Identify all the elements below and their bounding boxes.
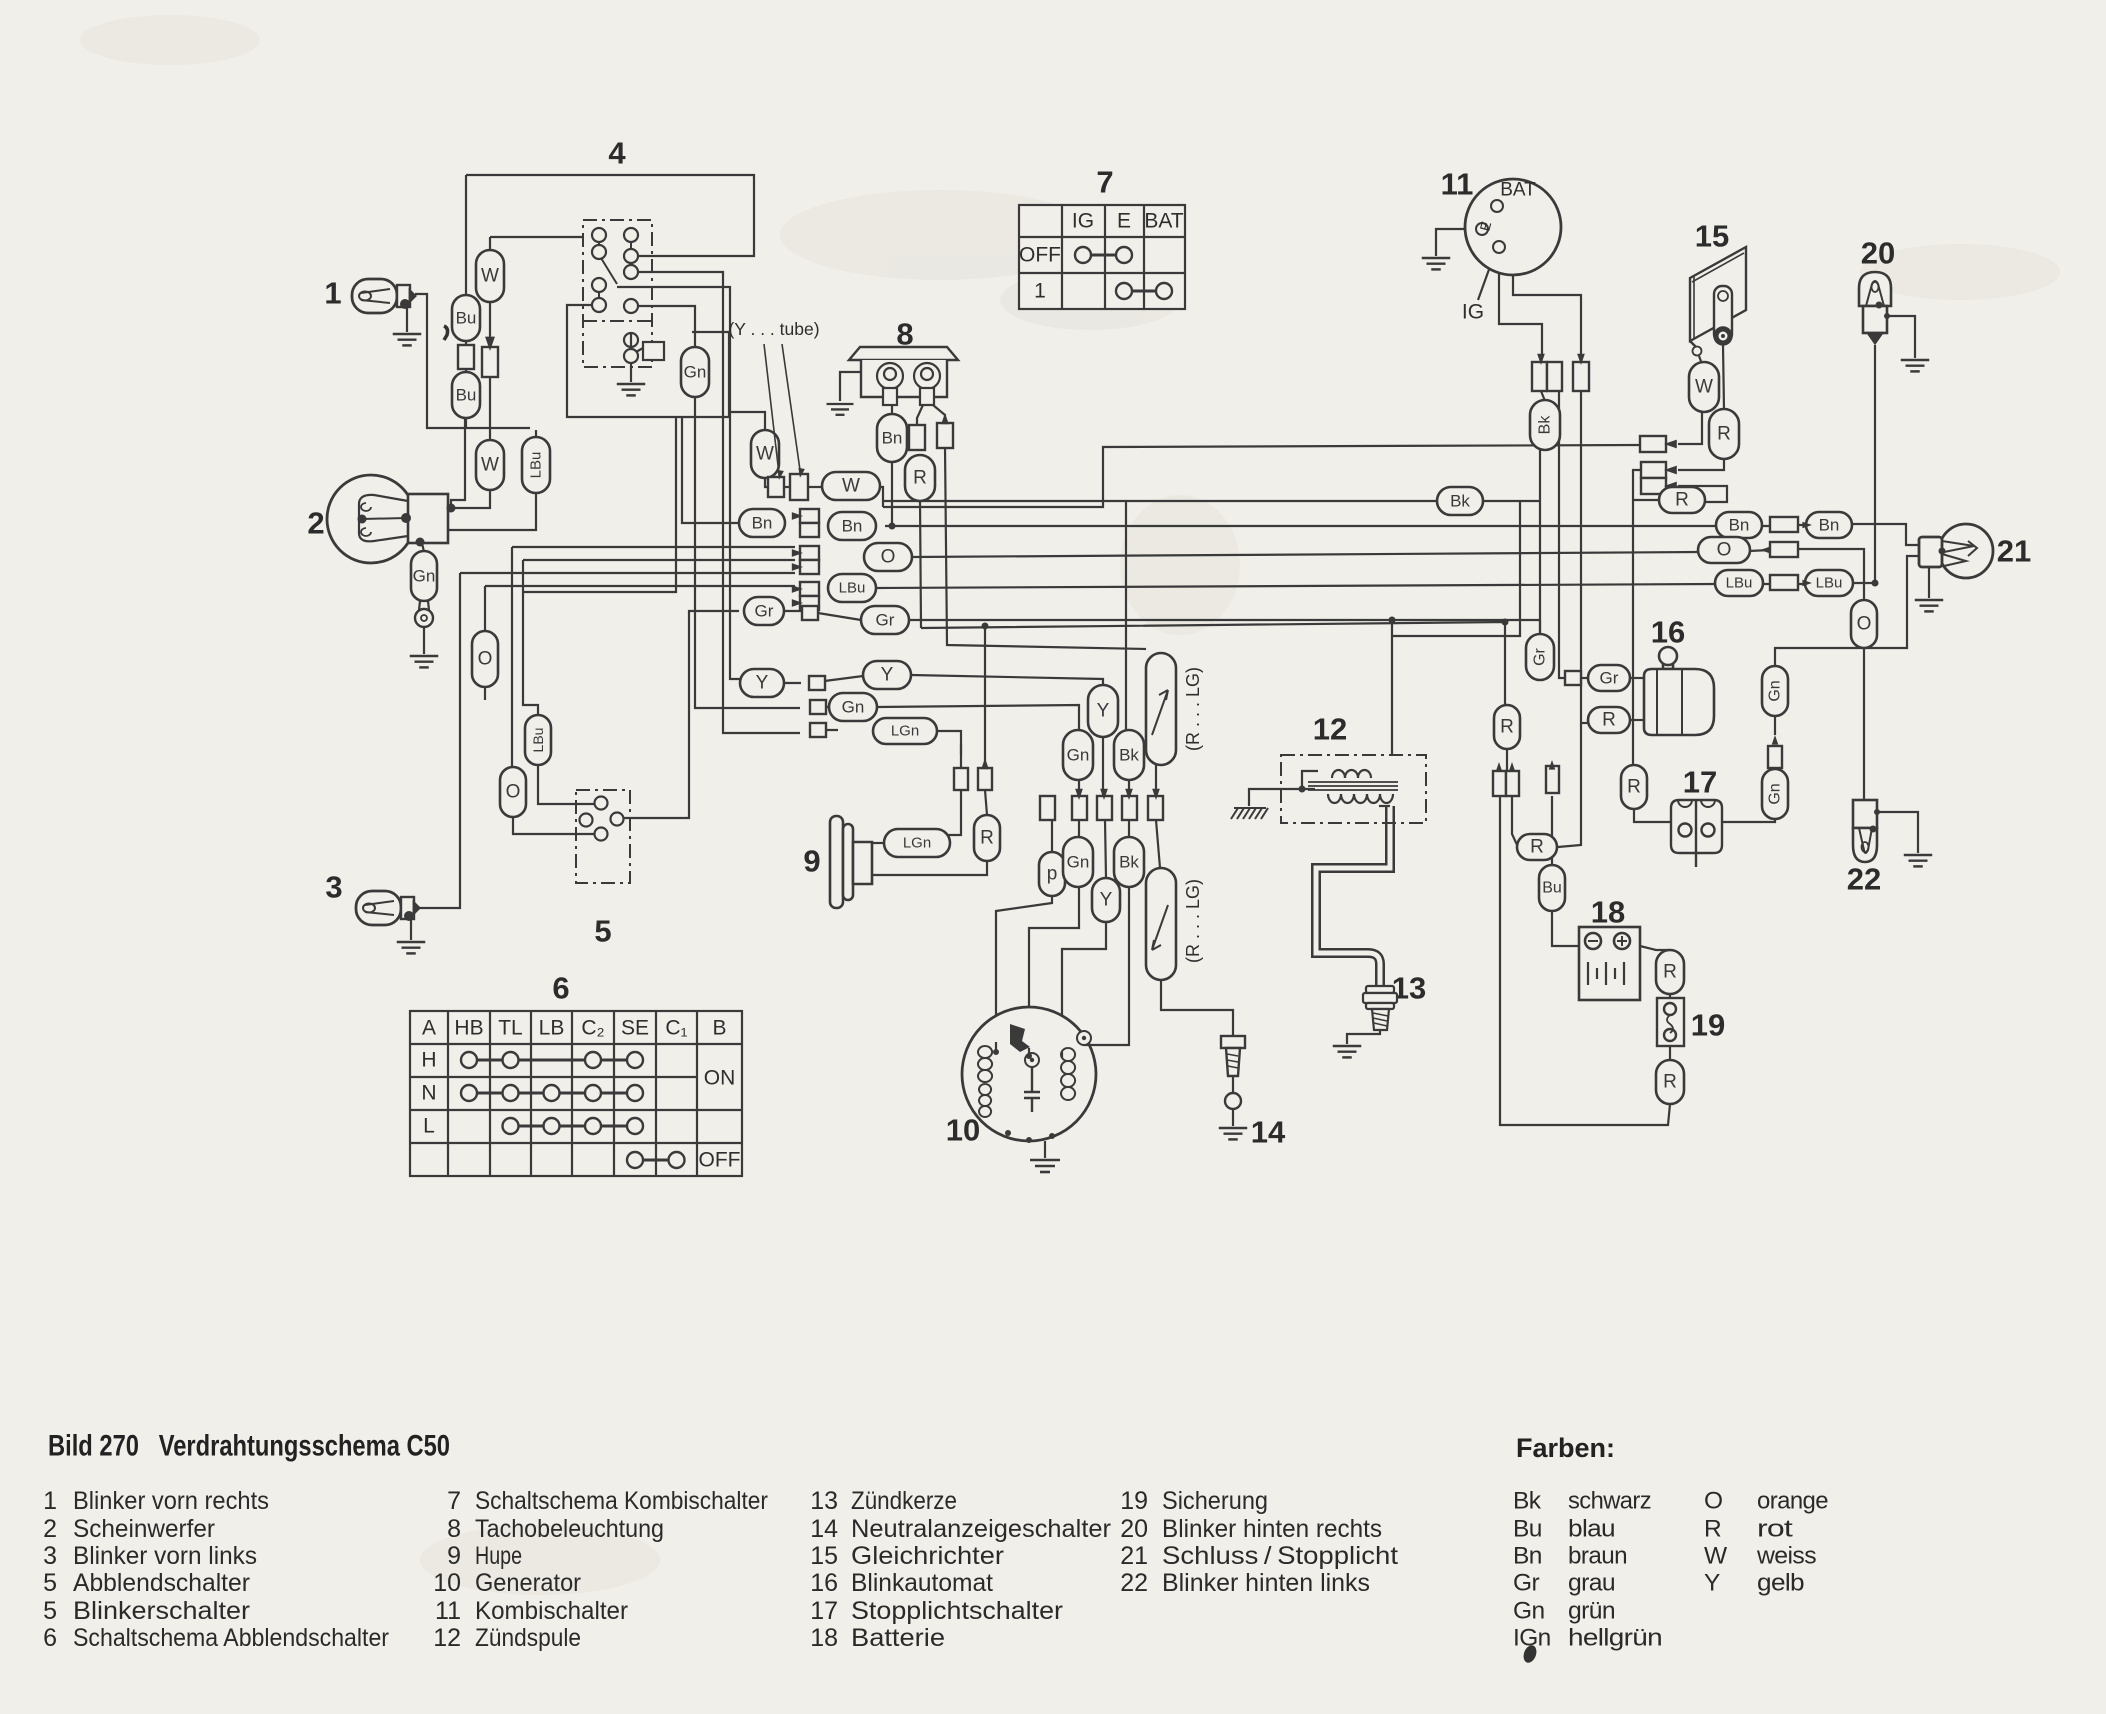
label W headlight lo [476,440,504,490]
wire bulb20 to ground [1887,316,1915,358]
svg-text:Kombischalter: Kombischalter [475,1597,628,1625]
svg-text:Gn: Gn [1067,746,1090,765]
wire LBu conn to LBu2 [1762,583,1806,585]
arrow into horn connector [981,758,989,769]
wire LBu2 drop [523,560,538,716]
wire bulb8a to Bn [891,405,893,415]
svg-text:R: R [1627,777,1641,798]
junction gen [1049,1133,1055,1139]
generator condenser [1024,1067,1040,1112]
svg-text:Blinker hinten links: Blinker hinten links [1162,1569,1370,1597]
svg-text:Blinker vorn links: Blinker vorn links [73,1542,257,1570]
connector tacho b [937,423,953,448]
svg-text:Bu: Bu [1513,1516,1542,1543]
wire R15 to connector [1678,459,1724,470]
svg-text:H: H [421,1049,436,1072]
arrow into column [792,549,803,557]
arrow into column [792,585,803,593]
arrow O conn [1760,547,1770,554]
wire IG drop [1499,254,1542,358]
svg-text:W: W [481,455,499,476]
arrow Y-tube [776,470,784,481]
svg-text:Schaltschema Kombischalter: Schaltschema Kombischalter [475,1487,768,1515]
wire bus W (headlight feed) [883,445,1640,507]
ground spark plug [1333,1046,1362,1057]
wire LBu1 top stub [535,430,537,445]
wire headlight to Gn [422,543,424,552]
wire neutral switch stem [1232,1076,1234,1093]
label Gn gen upper [1063,730,1093,780]
wire net bulb3 [460,572,795,574]
connector combi a1 [1532,362,1547,391]
svg-text:grau: grau [1568,1570,1615,1597]
wire bulb1 ground lead [406,304,408,332]
junction gen coil [993,1049,999,1055]
wire R cap to flasher relay [1630,719,1644,721]
tacho lamp housing 8 [849,347,958,397]
svg-text:12: 12 [1313,712,1347,747]
svg-text:15: 15 [1695,219,1729,254]
wire flasher cap to conn [1155,765,1157,797]
connector rectifier b2 [1641,478,1666,494]
wire blinker switch to Gr net [622,611,739,818]
label Gn stop 1 [1762,666,1788,716]
label R tacho [905,455,935,501]
label R fuse out [1656,1060,1684,1104]
svg-text:19: 19 [1120,1487,1148,1515]
wire LBu2 to junction [1852,582,1875,584]
label Bu battery [1539,865,1565,911]
svg-text:Gn: Gn [1767,680,1784,701]
svg-text:OFF: OFF [1019,244,1061,267]
junction gen [1026,1137,1032,1143]
flasher indicator capsule lower (R...LG) [1146,868,1176,980]
connector Y-tube b [790,474,808,500]
legend column 2 [433,1487,768,1652]
junction R bus / feed [1502,619,1509,626]
label R horn [974,815,1000,861]
wire p to generator [996,896,1052,1042]
junction coil primary [1299,786,1306,793]
svg-text:p: p [1047,864,1058,885]
svg-text:W: W [756,444,774,465]
svg-text:11: 11 [1441,167,1474,202]
svg-text:Generator: Generator [475,1569,581,1597]
svg-text:Blinker hinten rechts: Blinker hinten rechts [1162,1515,1382,1543]
label LBu rear 1 [1715,570,1763,596]
wire bulb8b to conn [917,405,923,425]
wire conn to Gn2 [1078,820,1080,838]
arrow combi a [1537,354,1545,365]
svg-text:LBu: LBu [528,452,545,479]
svg-text:1: 1 [324,276,341,311]
wire LGn stub [960,744,962,755]
label Bn right [828,512,876,540]
svg-text:gelb: gelb [1757,1570,1804,1597]
connector col cell [800,582,819,596]
label Gn headlight ground [411,551,437,601]
wire Gr bus to Gr capsule [1539,620,1541,634]
wire conn to lower indicator capsule [1156,820,1160,868]
svg-text:Bk: Bk [1513,1488,1542,1515]
wire IG run to stop lamp switch [1558,391,1581,847]
junction gen [1005,1130,1011,1136]
ground lamp 21 [1915,600,1944,611]
svg-text:L: L [423,1115,435,1138]
connector rectifier a [1640,436,1666,452]
svg-text:22: 22 [1120,1569,1148,1597]
label R charge [1659,487,1705,513]
svg-text:20: 20 [1120,1515,1148,1543]
svg-text:C₁: C₁ [665,1017,687,1040]
label R flasher [1588,707,1630,733]
label Bn tail 1 [1716,512,1762,538]
wire gen entry Bk [1083,1030,1129,1045]
svg-text:16: 16 [1651,615,1685,650]
wire R16 to connector [1506,749,1508,771]
arrow into gen connector [1152,789,1160,800]
wire LGn elbow down [938,731,961,768]
ground bulb 20 [1901,360,1930,371]
wire Bn to conn [1729,525,1770,527]
wire fuse to R19 [1669,1045,1671,1060]
svg-text:Neutralanzeigeschalter: Neutralanzeigeschalter [851,1515,1111,1543]
fuse 19 Sicherung [1657,998,1684,1046]
wire bulb1 branch down [415,294,530,428]
svg-text:schwarz: schwarz [1568,1488,1651,1515]
svg-text:Sicherung: Sicherung [1162,1487,1268,1515]
label R stop feed [1621,765,1647,809]
svg-text:Gn: Gn [1513,1598,1544,1625]
svg-text:7: 7 [447,1487,461,1515]
wire c to Bu [1551,796,1553,866]
svg-text:11: 11 [435,1597,461,1625]
svg-text:Gr: Gr [876,611,895,630]
label Gr flasher 2 [1588,665,1630,691]
tacho bulb [877,363,903,405]
wire tube conns [784,486,790,488]
arrow into gen connector [1125,789,1133,800]
bulb 1 Blinker vorn rechts [352,279,415,313]
svg-text:Blinkerschalter: Blinkerschalter [73,1597,250,1625]
svg-text:Abblendschalter: Abblendschalter [73,1569,250,1597]
svg-text:LGn: LGn [891,723,919,740]
label LGn horn [884,829,950,857]
tail lamp 21 Schluss/Stopplicht [1919,524,1993,578]
svg-text:BAT: BAT [1144,210,1183,233]
wire conn to Y2 [1105,820,1106,878]
label R feed [1494,705,1520,749]
arrow into column [792,563,803,571]
wire bus O [912,552,1700,557]
arrow W chain [485,337,495,351]
ground bulb 1 [393,334,422,345]
ground switch 4 [617,384,646,395]
junction Bn bus [889,523,896,530]
svg-text:B: B [712,1017,726,1040]
label Gr right [861,606,909,634]
svg-text:IG: IG [1462,301,1484,324]
svg-text:LBu: LBu [530,728,546,753]
wire battery plus to R18 [1640,946,1670,950]
svg-text:1: 1 [1034,280,1046,303]
svg-text:Bn: Bn [1729,516,1750,535]
svg-text:Gn: Gn [842,698,865,717]
connector combi a2 [1547,362,1562,391]
label O rear [1698,537,1750,563]
table 7 Schaltschema Kombischalter [1019,205,1185,309]
wire Gn chain 1 [1774,757,1776,769]
stoplight switch 17 [1671,800,1722,867]
arrow into column [792,599,803,607]
wire Gr connector to Gr cap [818,613,861,620]
wire Bn8 down [891,462,893,526]
connector rear O [1770,542,1798,557]
wire Y to connector [784,682,801,684]
svg-text:ON: ON [704,1067,736,1090]
wire Gn chain 2 [1774,716,1776,735]
svg-text:R: R [1663,962,1677,983]
arrow LBu conn [1802,580,1812,587]
bulb 22 Blinker hinten links [1852,800,1877,862]
wire W15 to connector [1678,412,1702,444]
svg-text:R: R [1530,837,1544,858]
svg-text:5: 5 [43,1597,57,1625]
svg-text:Scheinwerfer: Scheinwerfer [73,1515,215,1543]
svg-text:6: 6 [552,971,569,1006]
ground bulb 22 [1904,855,1933,866]
svg-text:Y: Y [1704,1570,1720,1597]
svg-text:Y: Y [1100,890,1113,911]
junction bulb22 [1874,809,1880,815]
label Gn switch4 [681,347,709,397]
terminal ring headlamp [419,601,429,610]
table6 row H contacts [461,1052,643,1068]
connector tail Bn [1770,517,1798,532]
svg-text:Gn: Gn [1067,853,1090,872]
wire horn to LGn9 [872,842,884,844]
svg-text:6: 6 [43,1624,57,1652]
bulb 20 Blinker hinten rechts [1859,272,1891,343]
connector feed a [1493,771,1506,796]
svg-text:(R . . . LG): (R . . . LG) [1183,667,1203,751]
wire combi switch contact bar [1487,235,1496,243]
wire Gn net from dimmer [695,396,800,708]
wire Gn bus to Gn capsule [877,705,1079,731]
svg-text:16: 16 [810,1569,838,1597]
wire bus Bk right [1483,500,1540,502]
svg-text:Gr: Gr [755,602,774,621]
wire bulb3 vertical [398,573,460,908]
switch 4 relay element [624,333,664,363]
svg-text:Bn: Bn [882,429,903,448]
svg-text:TL: TL [498,1017,523,1040]
label O right [864,543,912,571]
junction bulb20 [1884,313,1890,319]
connector col cell [800,509,819,523]
arrow into gen connector [1075,789,1083,800]
label Bk combi [1530,400,1560,450]
flasher indicator capsule upper (R...LG) [1146,653,1176,765]
svg-text:O: O [506,782,521,803]
wire R17a to stop switch [1634,809,1678,822]
ground combi switch [1422,258,1451,269]
wire Gr bus [909,619,1540,621]
connector gen 2 [1072,796,1087,820]
wire LBu2 to blinker switch [538,765,594,804]
svg-text:9: 9 [803,844,820,879]
svg-text:15: 15 [810,1542,838,1570]
label R stop [1517,834,1557,860]
label W rectifier [1689,362,1719,412]
wire BAT drop [1504,206,1581,358]
rectifier 15 Gleichrichter [1690,247,1746,356]
svg-text:Bild 270 Verdrahtungsschema: Bild 270 Verdrahtungsschema C50 [48,1430,450,1463]
label p pulse [1039,852,1065,896]
svg-text:O: O [478,649,493,670]
svg-text:Y: Y [1097,701,1110,722]
wire Bu to battery [1552,911,1579,946]
arrow combi b [1577,354,1585,365]
arrow feed c [1549,760,1556,770]
label Gn mid [829,693,877,721]
svg-text:(R . . . LG): (R . . . LG) [1183,879,1203,963]
label W dimmer out [751,430,779,478]
wire Gn to ring [423,600,425,604]
wire bus LBu [876,584,1716,588]
apostrophe mark (scan artifact) [444,326,448,340]
svg-text:blau: blau [1568,1516,1615,1543]
label Bk gen lower [1114,837,1144,887]
neutral switch 14 [1221,1036,1245,1076]
arrow into gen connector [1100,789,1108,800]
wire W8b elbow [879,487,883,507]
svg-text:E: E [1117,210,1131,233]
svg-text:Gn: Gn [413,567,436,586]
wire O2 drop [511,547,513,768]
wire Y cap to conn [1102,737,1104,797]
wire Bk/Gr shared column [1539,501,1541,634]
wire callout Y-tube [764,344,779,474]
wire coil secondary right [1379,805,1390,807]
svg-text:5: 5 [43,1569,57,1597]
svg-text:Bu: Bu [456,386,477,405]
svg-text:7: 7 [1096,165,1113,200]
horn 9 Hupe [830,816,872,908]
svg-text:3: 3 [325,870,342,905]
wire run to Gr connector [1559,391,1565,678]
svg-text:Gr: Gr [1600,669,1619,688]
connector Bu chain [458,345,474,369]
connector horn a [954,768,968,790]
svg-text:Y: Y [756,673,769,694]
wire Gr conn to Gr cap [1581,677,1588,679]
label LBu rear 2 [1805,570,1853,596]
arrow into connector b [941,413,949,424]
wire comp4 outer top [466,175,754,256]
svg-text:Gr: Gr [1532,647,1549,665]
switch 4 contacts [592,228,638,313]
wire ring to ground [423,627,425,654]
svg-text:O: O [1704,1488,1722,1515]
wire callout Y-tube 2 [782,344,800,470]
connector feed b [1506,771,1519,796]
svg-text:N: N [421,1082,436,1105]
ignition coil secondary [1328,794,1393,803]
label R battery [1656,950,1684,994]
wire stop feed to lamp [1775,556,1919,666]
ground coil (hatched) [1231,808,1268,819]
svg-text:R: R [980,828,994,849]
connector tacho a [909,425,925,450]
svg-text:19: 19 [1691,1008,1725,1043]
connector Gn [810,700,826,714]
switch 4 solid box [567,305,729,417]
colour legend 1 [1513,1488,1662,1652]
table6 row OFF contacts [627,1152,685,1168]
tacho bulb [914,363,940,405]
wire gen entry p [995,1042,997,1052]
wire LGn connector to cap [818,729,838,731]
connector col cell [800,523,819,537]
wire Bk capsule stem [1539,450,1541,501]
svg-text:IGn: IGn [1513,1625,1551,1652]
wire to flasher indicator [945,447,1146,649]
wire O conn down [1798,549,1864,601]
arrow rect conn a [1664,440,1677,449]
wire O to conn [1749,550,1770,551]
connector LGn [810,723,826,737]
svg-text:hellgrün: hellgrün [1568,1625,1662,1652]
svg-text:Batterie: Batterie [851,1624,945,1652]
arrow stop conn [1772,735,1779,745]
wire Bk2 to generator [1128,886,1130,1030]
wire bus Bk left [883,500,1437,502]
svg-text:Bu: Bu [1542,880,1562,897]
ground generator [1030,1160,1060,1172]
wire tacho ground lead [840,372,861,401]
arrow Bn conn [1802,522,1812,529]
svg-text:O: O [1717,540,1732,561]
svg-text:22: 22 [1847,862,1881,897]
svg-text:O: O [1857,614,1872,635]
wire switch4 to ground [630,363,632,382]
svg-text:weiss: weiss [1756,1543,1816,1570]
label O tail [1851,600,1877,648]
neutral switch contact ball [1225,1093,1241,1109]
wire R cap left [1633,499,1659,501]
svg-text:C₂: C₂ [581,1017,604,1040]
svg-text:18: 18 [810,1624,838,1652]
svg-text:LBu: LBu [839,580,866,597]
svg-text:SE: SE [621,1017,649,1040]
wire coil to ground [1249,789,1315,806]
wire W column [489,300,491,490]
wire bulb8b to conn2 [933,405,945,423]
wire tube conn to W8b [806,486,823,488]
svg-text:Zündkerze: Zündkerze [851,1487,957,1515]
connector combi b [1573,362,1589,391]
wire battery return loop [1500,796,1670,1125]
wire Bn net from dimmer [682,417,740,523]
arrow feed b [1509,762,1516,772]
ground neutral switch [1219,1128,1248,1139]
connector W chain [482,347,498,377]
label LGn mid [873,718,937,744]
svg-text:W: W [1704,1543,1728,1570]
switch 4 section divider [583,320,652,322]
wire O to bulb22 [1863,647,1865,800]
